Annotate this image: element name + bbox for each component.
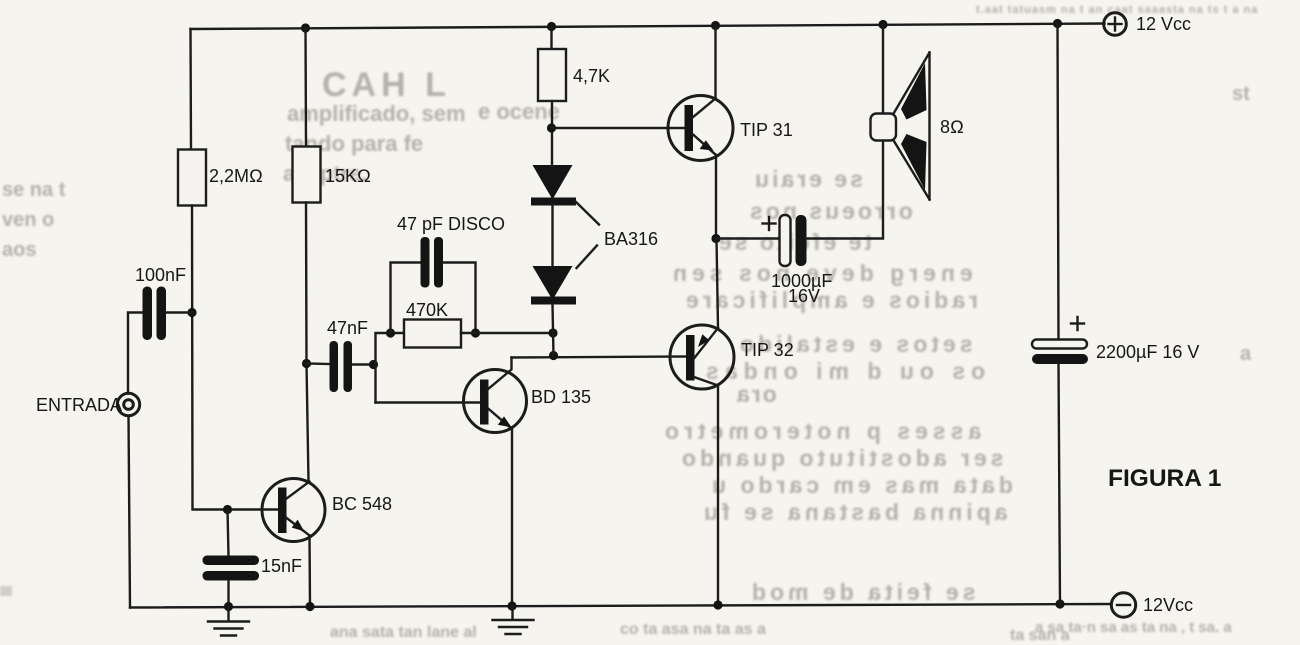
svg-text:470K: 470K [406, 300, 448, 320]
svg-text:a: a [1240, 343, 1252, 365]
svg-text:2200µF 16 V: 2200µF 16 V [1096, 342, 1199, 362]
svg-text:12 Vcc: 12 Vcc [1136, 14, 1191, 34]
wire 47nF input [307, 362, 330, 365]
svg-text:ser adostituto quando: ser adostituto quando [678, 445, 1004, 471]
wire ENTRADA shield down to ground rail [129, 416, 131, 608]
svg-text:st: st [1232, 83, 1250, 105]
capacitor C 47nF [327, 318, 368, 392]
svg-text:4,7K: 4,7K [573, 66, 610, 86]
svg-text:amplificado, sem: amplificado, sem [287, 101, 466, 126]
wire 4,7K bottom lead [551, 101, 553, 166]
wire between diodes [551, 206, 553, 267]
wire 2200uF bottom lead [1059, 364, 1061, 604]
node bottom rail TIP32 collector junction [713, 600, 722, 609]
wire BC548 emitter down [308, 536, 311, 607]
svg-text:15KΩ: 15KΩ [325, 166, 371, 186]
svg-text:8Ω: 8Ω [940, 117, 964, 137]
connector J ENTRADA jack [36, 393, 140, 415]
node bottom rail BC548 emitter junction [305, 602, 314, 611]
svg-text:BA316: BA316 [604, 229, 658, 249]
transistor Q TIP32 [670, 325, 794, 389]
svg-text:15nF: 15nF [261, 556, 302, 576]
svg-text:se feita de mod: se feita de mod [748, 579, 975, 605]
wire TIP32 collector down [717, 386, 719, 606]
node 470K left junction [386, 328, 395, 337]
resistor R 4,7K [538, 49, 610, 101]
node 47nF output junction [369, 360, 378, 369]
node 47nF branch junction [302, 359, 311, 368]
wire 15K column upper [304, 28, 307, 147]
transistor Q BD135 [464, 358, 592, 433]
svg-text:47 pF DISCO: 47 pF DISCO [397, 214, 505, 234]
wire BD135 emitter down [511, 429, 513, 607]
svg-text:CAH L: CAH L [322, 66, 451, 104]
svg-text:47nF: 47nF [327, 318, 368, 338]
node BC548 base 15nF junction [223, 505, 232, 514]
capacitor C 100nF [135, 265, 186, 340]
svg-text:ENTRADA: ENTRADA [36, 395, 122, 415]
wire diode column bottom [553, 305, 554, 356]
wire 2,2M column lower to BC548 base [192, 206, 278, 510]
svg-text:16V: 16V [788, 286, 820, 306]
wire TIP32 emitter up [717, 239, 719, 329]
wire 15nF bottom lead [227, 581, 229, 608]
wire 4,7K top lead [550, 27, 552, 50]
wire speaker top lead [882, 25, 884, 114]
svg-text:12Vcc: 12Vcc [1143, 595, 1193, 615]
label FIGURA 1 [1108, 465, 1221, 492]
svg-text:se eraiu: se eraiu [752, 166, 863, 192]
wire 470K row to diode column [461, 332, 553, 334]
wire bottom ground rail [130, 604, 1112, 608]
svg-text:2,2MΩ: 2,2MΩ [209, 166, 263, 186]
resistor R 2,2M [178, 150, 263, 206]
svg-text:orroeus nos: orroeus nos [747, 198, 913, 224]
capacitor C 1000uF 16V [763, 215, 833, 306]
svg-text:FIGURA 1: FIGURA 1 [1108, 465, 1221, 492]
transistor Q BC548 [262, 479, 392, 542]
node bottom rail 2200uF junction [1055, 599, 1064, 608]
resistor R 15K [293, 147, 371, 203]
node rail junction above 15K [301, 23, 310, 32]
ground symbol right [493, 606, 534, 634]
wire 2200uF top lead [1058, 24, 1059, 340]
svg-text:a sa ta·n sa as ta na , t: a sa ta·n sa as ta na , t sa. a [1035, 619, 1232, 636]
wire TIP31 emitter down [715, 155, 717, 239]
capacitor C 15nF [203, 556, 303, 581]
node 4,7K diode TIP31 base junction [547, 123, 556, 132]
label BA316 with pointer lines [576, 202, 659, 269]
svg-text:100nF: 100nF [135, 265, 186, 285]
wire BD135 collector row to TIP32 base [512, 357, 687, 358]
wire top supply rail [191, 24, 1105, 30]
diode D1 BA316 [531, 165, 576, 206]
speaker LS 8 ohm [871, 53, 964, 200]
wire ENTRADA to 100nF [128, 313, 143, 394]
-12Vcc terminal [1111, 593, 1193, 617]
svg-text:apinna bastana se fu: apinna bastana se fu [700, 499, 1008, 525]
wire 47nF output [352, 363, 374, 365]
svg-text:asses p noterometro: asses p noterometro [660, 418, 981, 444]
wire feedback branch vertical [376, 333, 405, 403]
wire TIP31 collector up [714, 26, 716, 99]
wire 1000uF right lead to speaker column [807, 141, 884, 239]
node diode column 470K row junction [548, 328, 557, 337]
transistor Q TIP31 [668, 96, 793, 161]
capacitor C 2200uF 16V [1032, 317, 1199, 364]
svg-text:TIP 31: TIP 31 [740, 120, 793, 140]
node bottom rail BD135 emitter junction [507, 601, 516, 610]
wire 100nF output [166, 311, 192, 313]
wire BD135 base row [376, 401, 481, 403]
wire TIP31 base lead [552, 127, 685, 129]
node diode column to base row junction [549, 351, 558, 360]
node 100nF to 2,2M column junction [187, 308, 196, 317]
node rail junction above 4,7K [547, 22, 556, 31]
svg-text:co ta asa na ta as a: co ta asa na ta as a [620, 621, 766, 638]
svg-text:TIP 32: TIP 32 [741, 340, 794, 360]
node rail junction above 2200uF [1053, 19, 1062, 28]
node rail junction above TIP31 [711, 21, 720, 30]
node 470K right junction [471, 328, 480, 337]
svg-text:e ocene: e ocene [478, 99, 560, 124]
node rail junction above speaker [878, 20, 887, 29]
wire 15nF top lead [228, 510, 229, 556]
ground symbol left [208, 607, 249, 636]
+12Vcc terminal [1104, 13, 1191, 36]
capacitor C 47pF loop [391, 214, 506, 333]
svg-text:BC 548: BC 548 [332, 494, 392, 514]
diode D2 BA316 [531, 266, 576, 305]
node TIP31 emitter 1000uF junction [711, 234, 720, 243]
node bottom rail 15nF junction [224, 602, 233, 611]
svg-text:data mas em cardo u: data mas em cardo u [708, 472, 1013, 498]
wire 15K column lower to BC548 collector [306, 203, 309, 482]
wire 1000uF left lead [716, 237, 780, 239]
svg-text:te efeito se: te efeito se [716, 229, 872, 255]
svg-text:ana sata tan lane al: ana sata tan lane al [330, 624, 477, 641]
svg-text:ora: ora [735, 381, 777, 407]
svg-text:BD 135: BD 135 [531, 387, 591, 407]
svg-text:ven o: ven o [2, 209, 54, 231]
svg-text:se na t: se na t [2, 179, 66, 201]
svg-text:aos: aos [2, 239, 36, 261]
wire 2,2M column upper [189, 29, 192, 150]
resistor R 470K [404, 300, 461, 348]
